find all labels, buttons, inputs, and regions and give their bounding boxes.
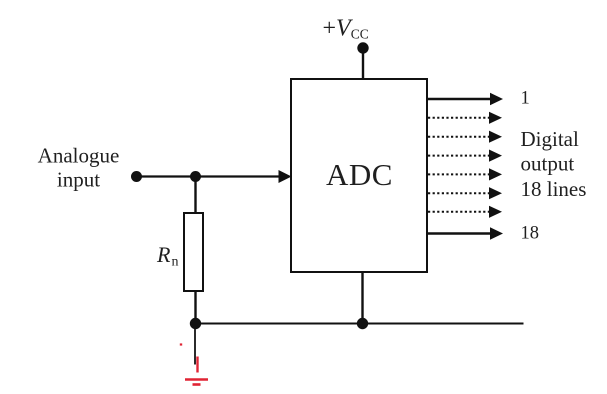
svg-text:1: 1 <box>521 89 530 109</box>
svg-text:18: 18 <box>521 224 540 244</box>
node analogue input terminal dot <box>131 171 142 182</box>
ADC U1 <box>291 79 427 272</box>
wire output line 3 (dotted) <box>428 131 502 143</box>
Analogue input label <box>38 144 120 192</box>
wire ADC bottom to rail <box>361 272 363 324</box>
node junction ADC/rail <box>357 318 368 329</box>
svg-text:input: input <box>57 168 100 192</box>
wire output line 1 <box>427 93 503 106</box>
ground (red) <box>180 343 208 384</box>
wire output line 7 (dotted) <box>428 206 502 218</box>
wire bottom rail <box>196 323 524 325</box>
node junction input/resistor <box>190 171 201 182</box>
svg-text:+VCC: +VCC <box>323 16 369 42</box>
wire output line 8 <box>427 227 503 240</box>
node junction bottom-left <box>190 318 201 329</box>
svg-text:output: output <box>521 152 575 176</box>
wire output line 4 (dotted) <box>428 150 502 162</box>
svg-text:Analogue: Analogue <box>38 144 120 168</box>
wire output line 5 (dotted) <box>428 168 502 180</box>
wire output line 6 (dotted) <box>428 187 502 199</box>
node Vcc terminal dot <box>357 42 368 53</box>
svg-text:18 lines: 18 lines <box>521 177 587 201</box>
wire resistor bottom to ground rail <box>194 291 196 324</box>
resistor Rn <box>156 213 203 291</box>
wire stub junction to ground <box>194 329 196 365</box>
svg-text:R: R <box>156 242 171 267</box>
svg-text:ADC: ADC <box>326 157 393 192</box>
wire analogue input to ADC <box>137 170 292 183</box>
wire output line 2 (dotted) <box>428 112 502 124</box>
wire junction to resistor top <box>194 177 196 214</box>
svg-text:n: n <box>172 255 179 270</box>
svg-text:Digital: Digital <box>521 127 579 151</box>
Digital output 18 lines label <box>521 127 587 201</box>
wire Vcc to ADC top <box>362 48 364 79</box>
